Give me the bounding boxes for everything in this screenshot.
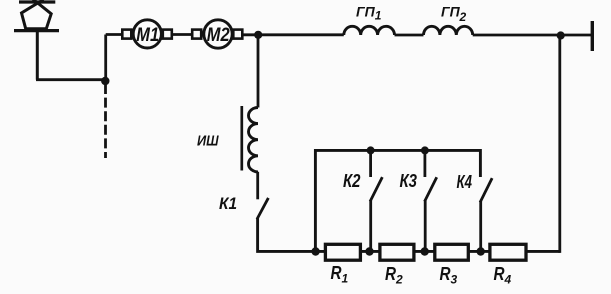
resistor R1 [325, 244, 360, 260]
inductor GP2 [424, 26, 473, 35]
terminal bar [591, 21, 594, 51]
motor M1 [122, 20, 172, 48]
M2 left brush box [192, 30, 201, 39]
switch K2 lower wire [369, 200, 372, 251]
resistor R4 [490, 244, 526, 260]
svg-text:М1: М1 [136, 25, 159, 46]
wire riser node A to top bus [104, 35, 107, 82]
svg-text:R: R [494, 264, 505, 284]
wire GP2 to terminal [473, 34, 591, 37]
svg-text:R: R [331, 263, 342, 283]
bottom rail segment R1-R2 [360, 250, 380, 253]
svg-text:2: 2 [459, 10, 467, 24]
wire node B down to shunt coil [257, 35, 260, 108]
svg-text:К1: К1 [219, 194, 237, 213]
wire M2 to GP1 [242, 33, 343, 36]
wire right riser [558, 36, 561, 253]
svg-text:R: R [385, 264, 396, 284]
M2 circle [204, 20, 232, 48]
switch K1 blade [258, 199, 268, 218]
node G (rail dot R3/R4) [477, 247, 485, 255]
M1 right brush box [163, 30, 172, 39]
svg-text:R: R [440, 264, 451, 284]
switch K3 upper stub [423, 150, 426, 177]
M2 right brush box [233, 30, 242, 39]
svg-text:ГП: ГП [441, 4, 461, 20]
switch K2 blade [371, 178, 382, 200]
inductor GP1 [344, 26, 395, 35]
node F (rail dot R2/R3) [421, 247, 429, 255]
node B (junction dot above shunt branch) [254, 31, 262, 39]
motor M2 [192, 20, 242, 48]
svg-text:1: 1 [342, 272, 349, 286]
node D (rail dot left) [311, 247, 319, 255]
bottom rail segment R2-R3 [414, 250, 435, 253]
bottom rail segment R3-R4 [468, 250, 490, 253]
svg-text:1: 1 [375, 9, 382, 23]
shorting bus wire [315, 150, 480, 251]
svg-text:3: 3 [451, 273, 458, 287]
M1 left brush box [122, 30, 131, 39]
wire to motor M1 [106, 33, 123, 36]
wire M1 to M2 [172, 33, 192, 36]
ISh core bar [240, 106, 243, 171]
svg-text:К4: К4 [457, 172, 473, 192]
resistor R2 [380, 244, 414, 260]
switch K2 upper stub [369, 150, 372, 177]
node H (bus dot above K2) [367, 146, 375, 154]
switch K4 blade [481, 179, 492, 201]
svg-text:К2: К2 [343, 171, 361, 191]
bottom rail segment R4-riser [526, 250, 560, 253]
svg-text:К3: К3 [400, 171, 418, 191]
wire coil to switch K1 [256, 172, 259, 200]
svg-text:4: 4 [504, 273, 512, 287]
pantograph (current collector) [14, 0, 59, 80]
M1 circle [133, 20, 161, 48]
wire K1 to bottom rail [258, 218, 326, 251]
node E (rail dot R1/R2) [365, 247, 373, 255]
switch K4 lower wire [479, 201, 482, 251]
node C (junction dot to resistor bank) [557, 31, 565, 39]
node A (junction dot) [101, 77, 109, 85]
inductive shunt ISh coil [248, 108, 258, 172]
wire pantograph to node A [36, 78, 106, 81]
contact wire (overhead line) [19, 0, 55, 3]
svg-text:М2: М2 [207, 25, 230, 46]
svg-text:ИШ: ИШ [197, 134, 219, 150]
switch K3 lower wire [424, 200, 427, 251]
resistor R3 [435, 244, 469, 260]
svg-text:2: 2 [395, 273, 403, 287]
switch K3 blade [425, 179, 436, 201]
wire GP1 to GP2 [395, 34, 424, 37]
svg-text:ГП: ГП [356, 4, 376, 20]
node I (bus dot above K3) [421, 146, 429, 154]
dashed return (rail) lead [104, 84, 107, 158]
